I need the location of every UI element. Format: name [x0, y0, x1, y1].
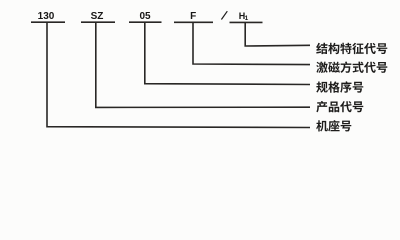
svg-text:1: 1: [245, 15, 249, 22]
leader line from F down to 激磁方式代号: [193, 22, 310, 64]
svg-text:F: F: [190, 11, 196, 22]
svg-text:05: 05: [139, 11, 151, 22]
label: frame size 机座号: [316, 120, 351, 131]
code segment 130 underline: [31, 21, 65, 23]
svg-text:130: 130: [38, 11, 55, 22]
code segment 05 underline: [129, 21, 162, 23]
label: excitation mode code 激磁方式代号: [316, 61, 387, 73]
leader line from 130 down to 机座号: [47, 22, 310, 127]
code segment SZ underline: [81, 21, 115, 23]
code segment H1 underline: [230, 21, 263, 23]
label: product code 产品代号: [316, 101, 363, 112]
leader line from H1 down to 结构特征代号: [245, 22, 310, 46]
code segment F underline: [174, 21, 213, 23]
label: structure feature code 结构特征代号: [316, 43, 387, 54]
leader line from SZ down to 产品代号: [96, 22, 310, 107]
label: spec serial number 规格序号: [316, 81, 363, 92]
slash separator: [221, 11, 227, 19]
svg-text:SZ: SZ: [91, 11, 104, 22]
leader line from 05 down to 规格序号: [145, 22, 310, 84]
